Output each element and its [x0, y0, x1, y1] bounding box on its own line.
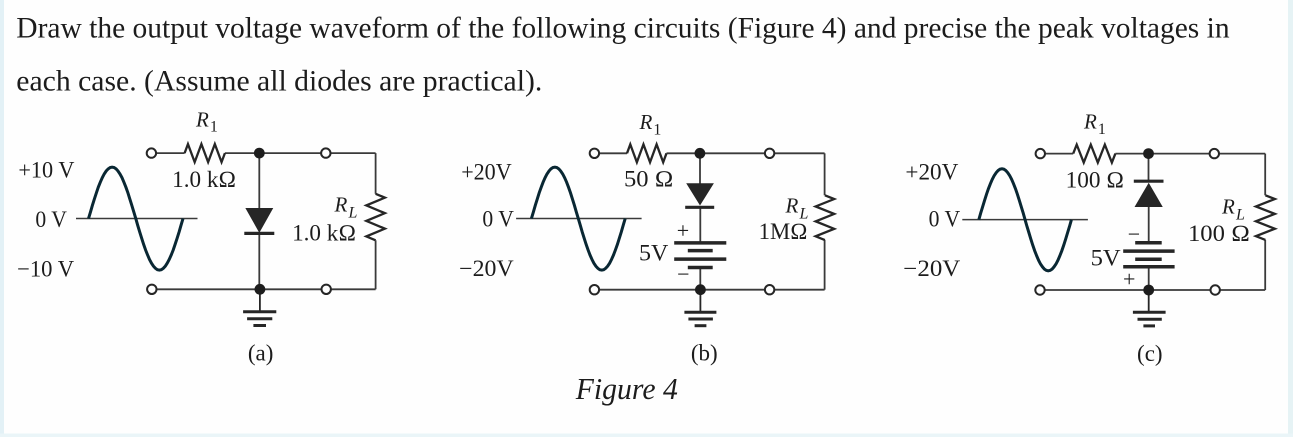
wire a: top rail right of R1 [225, 152, 376, 154]
svg-text:+10 V: +10 V [18, 158, 74, 183]
svg-text:(a): (a) [248, 340, 274, 365]
wire b: diode bar to battery [699, 207, 701, 243]
svg-text:+20V: +20V [905, 159, 958, 184]
terminal (a) top-left [147, 148, 156, 157]
junction dot (b) bottom [695, 284, 706, 295]
circuit b: sine wave source [531, 167, 625, 270]
diode D (b) pointing down [687, 184, 713, 205]
terminal (a) bottom-left [147, 285, 156, 294]
terminal (b) top-left [590, 149, 599, 158]
resistor RL (b) [816, 195, 835, 240]
terminal (c) top-mid [1210, 149, 1219, 158]
svg-text:1MΩ: 1MΩ [759, 219, 808, 244]
terminal (a) top-mid [321, 148, 330, 157]
svg-text:100 Ω: 100 Ω [1066, 167, 1125, 192]
diode D (c) pointing up [1135, 184, 1162, 207]
diode D (a) pointing down [246, 209, 272, 232]
page edge tint left [0, 0, 4, 437]
battery 5V (b) [674, 243, 726, 268]
ground (a) [243, 289, 276, 325]
wire c: bottom rail [1040, 289, 1265, 291]
wire a: diode vertical top [258, 153, 260, 208]
wire b: right branch down to RL [824, 153, 826, 195]
svg-text:(b): (b) [691, 341, 718, 366]
page edge tint bottom [0, 434, 1293, 438]
wire b: diode vertical top [699, 153, 701, 184]
wire a: RL bottom to bottom rail [375, 240, 377, 289]
svg-text:50 Ω: 50 Ω [624, 167, 674, 192]
wire b: top rail right of R1 [667, 152, 825, 154]
wire c: RL bottom to bottom rail [1264, 240, 1266, 290]
wire b: top rail [594, 152, 627, 154]
svg-text:Draw the output voltage wavefo: Draw the output voltage waveform of the … [16, 12, 1229, 45]
circuit b: input sine axis [516, 218, 642, 220]
terminal (b) bottom-mid [765, 285, 774, 294]
svg-text:−10 V: −10 V [17, 257, 74, 282]
wire c: right branch down to RL [1264, 154, 1266, 196]
wire a: top rail [151, 152, 184, 154]
svg-text:1: 1 [210, 119, 218, 136]
svg-text:100 Ω: 100 Ω [1188, 221, 1250, 246]
resistor RL (a) [366, 194, 385, 241]
svg-text:R: R [195, 107, 209, 131]
svg-text:R: R [334, 193, 348, 217]
terminal (c) bottom-left [1035, 285, 1044, 294]
circuit c: sine wave source [979, 169, 1072, 271]
svg-text:1: 1 [1098, 121, 1106, 138]
svg-text:R: R [1221, 194, 1235, 218]
svg-text:5V: 5V [639, 240, 669, 265]
svg-text:−: − [677, 262, 689, 287]
junction dot (c) top [1143, 148, 1154, 159]
svg-text:+: + [677, 218, 689, 243]
wire c: battery to bottom rail [1148, 267, 1150, 290]
resistor R1 (b) [627, 144, 666, 162]
svg-text:1.0 kΩ: 1.0 kΩ [292, 221, 356, 246]
junction dot (a) top [254, 148, 265, 159]
wire a: right branch down to RL [375, 153, 377, 194]
resistor R1 (c) [1073, 145, 1115, 163]
ground (c) [1133, 290, 1166, 326]
svg-text:each case. (Assume all diodes: each case. (Assume all diodes are practi… [16, 65, 542, 98]
junction dot (c) bottom [1143, 285, 1154, 296]
svg-text:0 V: 0 V [929, 207, 961, 232]
terminal (b) top-mid [765, 149, 774, 158]
circuit a: sine wave source [89, 167, 184, 270]
wire c: diode vertical top [1148, 154, 1150, 182]
wire b: bottom rail [594, 289, 824, 291]
svg-text:5V: 5V [1091, 246, 1121, 271]
terminal (a) bottom-mid [322, 285, 331, 294]
wire b: battery to bottom rail [699, 268, 701, 290]
svg-text:Figure 4: Figure 4 [575, 371, 678, 406]
junction dot (b) top [695, 148, 706, 159]
svg-text:R: R [1083, 110, 1097, 134]
ground (b) [684, 290, 716, 326]
wire a: diode vertical bottom [258, 233, 260, 289]
wire a: bottom rail [152, 288, 376, 290]
svg-text:−: − [1128, 222, 1140, 247]
wire b: RL bottom to bottom rail [824, 240, 826, 290]
terminal (b) bottom-left [590, 285, 599, 294]
junction dot (a) bottom [255, 284, 266, 295]
svg-text:−20V: −20V [903, 256, 960, 281]
svg-text:R: R [785, 194, 799, 218]
terminal (c) bottom-mid [1211, 285, 1220, 294]
wire c: diode to battery [1148, 207, 1150, 243]
circuit c: input sine axis [962, 219, 1088, 221]
svg-text:+: + [1123, 267, 1135, 292]
svg-text:1.0 kΩ: 1.0 kΩ [172, 167, 236, 192]
svg-text:1: 1 [653, 121, 661, 138]
svg-text:L: L [348, 205, 358, 222]
svg-text:+20V: +20V [461, 159, 512, 184]
circuit a: input sine axis [76, 218, 198, 220]
svg-text:−20V: −20V [459, 256, 514, 281]
wire c: top rail [1040, 153, 1073, 155]
wire c: top rail right of R1 [1115, 153, 1265, 155]
resistor R1 (a) [185, 144, 225, 162]
resistor RL (c) [1256, 195, 1275, 240]
battery 5V (c) reversed [1123, 243, 1174, 267]
terminal (c) top-left [1036, 149, 1045, 158]
page edge tint right [1288, 0, 1293, 437]
svg-text:(c): (c) [1137, 341, 1163, 366]
svg-text:0 V: 0 V [482, 207, 514, 232]
svg-text:R: R [639, 110, 653, 134]
svg-text:0 V: 0 V [35, 207, 67, 232]
